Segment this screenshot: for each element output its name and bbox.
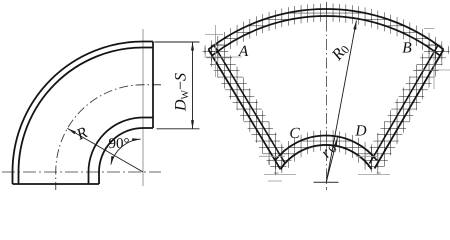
radius R dimension line (67, 128, 143, 172)
angular arc arrowhead lower (111, 156, 114, 165)
svg-text:D: D (354, 123, 366, 140)
Dw-S dimension line (192, 42, 194, 129)
svg-text:DW−S: DW−S (173, 73, 192, 112)
R0 dimension line (326, 21, 356, 183)
inner boundary lower arc (280, 145, 371, 169)
elbow inner wall inner line (89, 118, 154, 185)
right end face (152, 42, 154, 129)
construction tick below left tip lower (268, 180, 282, 182)
construction tick below left tip (264, 174, 296, 176)
angular arc arrowhead upper (132, 138, 141, 141)
hatched allowance band: inner arc (266, 130, 385, 174)
inner band upper arc (275, 136, 377, 161)
vertical tangent construction line (142, 29, 144, 186)
elbow outer wall outer line (13, 42, 154, 185)
horizontal centerline tick at pattern center (314, 181, 339, 183)
Dw-S extension line top (155, 41, 200, 43)
svg-text:90°: 90° (109, 136, 130, 152)
svg-text:A: A (238, 43, 249, 60)
pipe centerline arc (dash-dot) (56, 85, 161, 190)
construction tick inside left V (259, 155, 285, 157)
elbow outer wall inner line (19, 48, 154, 185)
construction tick inside right V (356, 155, 378, 157)
construction tick above corner A (205, 34, 223, 36)
Dw-S arrowhead top (191, 42, 194, 51)
90-degree angular dimension arc (111, 139, 141, 164)
r0 dimension line (326, 138, 337, 183)
elbow inner wall outer line (99, 128, 153, 184)
Dw-S arrowhead bottom (191, 120, 194, 129)
construction crosshair near corner B vertical (433, 51, 435, 89)
hatched allowance band: outer arc (201, 4, 450, 63)
radius R arrowhead (67, 128, 76, 134)
construction crosshair near corner A horizontal (204, 56, 242, 58)
left edge band line (214, 46, 285, 163)
hatched allowance band: right edge (362, 41, 450, 176)
hatched allowance band: left edge (201, 41, 293, 176)
right edge line (375, 50, 444, 169)
bottom end face (13, 183, 100, 185)
right edge band line (370, 46, 438, 164)
svg-text:R: R (73, 124, 90, 144)
construction tick below right tip (358, 174, 390, 176)
svg-text:B: B (402, 40, 412, 57)
r0 arrowhead (334, 138, 338, 147)
svg-text:C: C (289, 125, 300, 142)
R0 arrowhead (353, 21, 356, 30)
outer band inner arc (213, 16, 440, 55)
horizontal centerline through bend center (2, 171, 161, 173)
construction tick above corner B (424, 28, 435, 30)
Dw-S extension line bottom (157, 128, 200, 130)
outer boundary arc (outermost) (208, 9, 443, 49)
construction crosshair near corner B horizontal (416, 69, 450, 71)
construction crosshair near corner A vertical (215, 25, 217, 77)
vertical centerline of pattern (326, 2, 328, 190)
left edge line (208, 50, 280, 170)
